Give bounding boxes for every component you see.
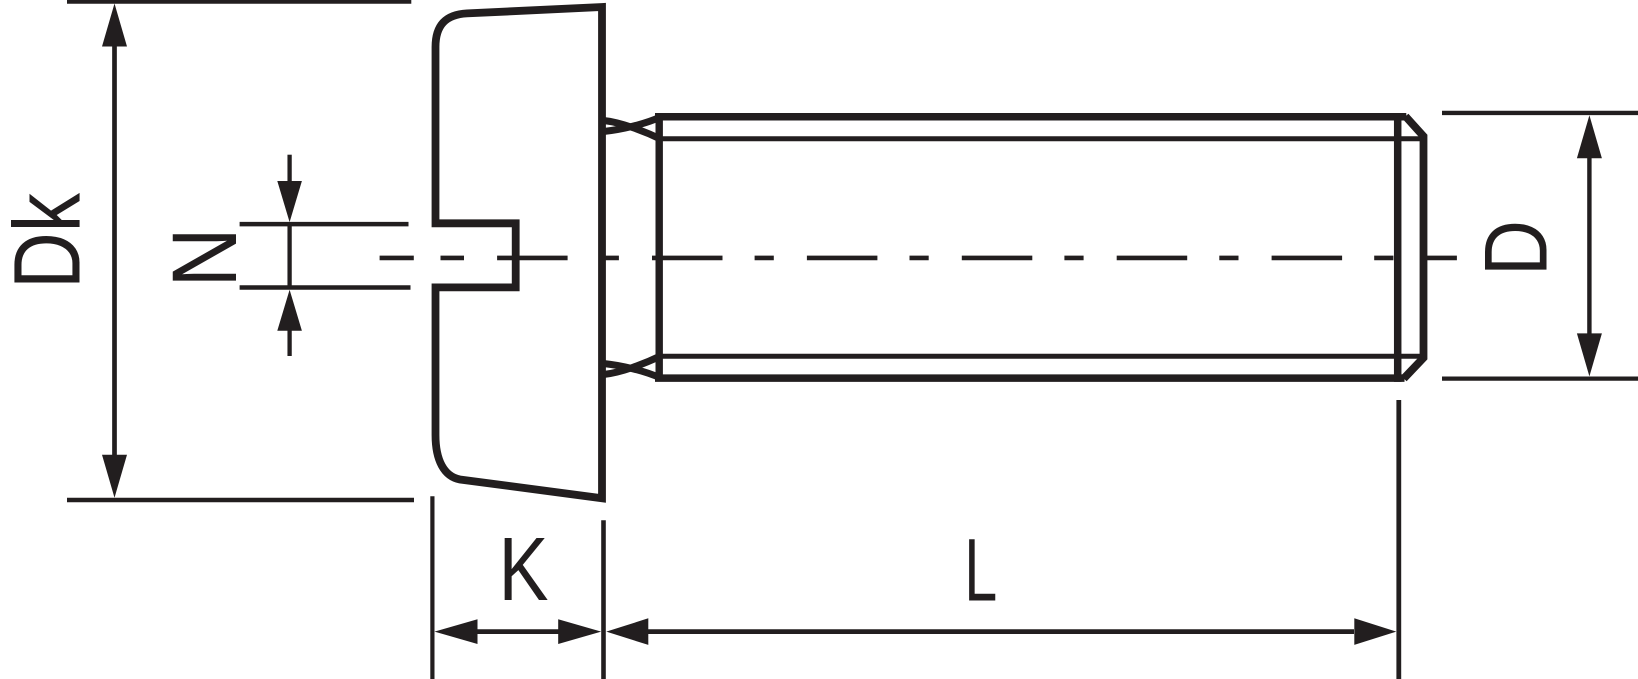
Dk arrow down xyxy=(102,455,127,498)
L arrow right xyxy=(1354,618,1396,645)
shank major diameter top line xyxy=(655,113,1406,121)
svg-text:D: D xyxy=(1466,220,1566,276)
L extension line right xyxy=(1396,400,1401,679)
full-thread boundary line at head xyxy=(656,113,663,382)
Dk dimension line xyxy=(112,44,117,457)
K dimension line xyxy=(476,629,559,634)
thread minor diameter bottom line xyxy=(659,354,1421,359)
full-thread boundary line at tip xyxy=(1394,113,1402,382)
D dimension line xyxy=(1587,157,1591,335)
Dk extension line bottom xyxy=(67,498,414,502)
L dimension line xyxy=(648,629,1354,634)
D arrow down xyxy=(1577,333,1602,376)
svg-text:L: L xyxy=(964,519,997,619)
thread minor diameter top line xyxy=(659,136,1421,141)
N extension line top xyxy=(240,222,409,227)
svg-text:N: N xyxy=(154,228,256,288)
Dk extension line top xyxy=(67,0,411,4)
D extension line top xyxy=(1442,111,1638,115)
K arrow left xyxy=(435,619,478,644)
N dimension line middle segment xyxy=(287,224,291,288)
thread runout curve upper B xyxy=(604,121,661,139)
K extension line right xyxy=(601,520,606,679)
N dimension line upper segment xyxy=(287,155,291,183)
K extension line left xyxy=(430,496,434,679)
shank major diameter bottom line xyxy=(655,374,1405,382)
Dk arrow up xyxy=(102,4,127,47)
N dimension line lower segment xyxy=(287,329,291,356)
K arrow right xyxy=(558,619,601,644)
screw head outline xyxy=(436,7,603,498)
thread runout curve lower B xyxy=(604,356,661,374)
centerline main part xyxy=(497,256,1457,261)
D extension line bottom xyxy=(1442,376,1638,380)
L arrow left xyxy=(606,618,648,645)
tip chamfers and end face xyxy=(1404,116,1424,378)
thread runout curve lower A xyxy=(604,364,661,378)
svg-text:Dk: Dk xyxy=(0,193,100,289)
centerline first part xyxy=(380,256,498,261)
D arrow up xyxy=(1577,115,1602,158)
N arrow up xyxy=(277,290,302,331)
svg-text:K: K xyxy=(499,520,549,620)
N extension line bottom xyxy=(240,285,411,290)
N arrow down xyxy=(277,181,302,222)
thread runout curve upper A xyxy=(604,117,661,131)
